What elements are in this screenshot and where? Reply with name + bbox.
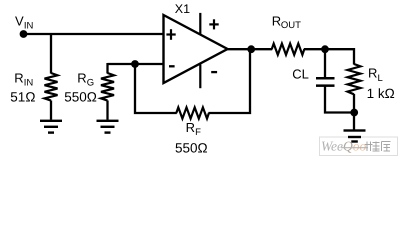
watermark text WeeQoo xyxy=(321,139,367,154)
wire feedback bottom right and up to output xyxy=(208,49,250,113)
resistor RF xyxy=(176,107,209,118)
resistor RL xyxy=(348,64,361,94)
wire RG drop xyxy=(106,63,108,74)
node load dot xyxy=(321,45,329,53)
node feedback tap xyxy=(131,60,139,68)
svg-text:R: R xyxy=(272,14,281,29)
op-amp noninverting plus sign xyxy=(166,29,175,40)
svg-text:L: L xyxy=(378,73,383,84)
svg-text:X1: X1 xyxy=(175,2,190,16)
svg-text:WeeQoo: WeeQoo xyxy=(321,139,367,154)
label RG xyxy=(77,70,94,88)
op-amp inverting minus sign xyxy=(169,65,175,67)
label RL xyxy=(368,66,383,84)
wire feedback left and bottom xyxy=(135,63,177,113)
label RIN xyxy=(14,70,33,88)
label plus supply xyxy=(209,19,218,29)
ground RG xyxy=(97,120,119,134)
wire VIN to op-amp noninverting input xyxy=(24,33,164,35)
label CL xyxy=(292,66,309,81)
svg-text:OUT: OUT xyxy=(281,20,301,31)
value 550ohm RG xyxy=(64,90,97,105)
svg-text:V: V xyxy=(15,14,24,29)
value 550ohm RF xyxy=(175,140,208,155)
wire CL bottom xyxy=(325,86,354,112)
svg-text:IN: IN xyxy=(24,78,34,89)
svg-text:R: R xyxy=(14,70,23,85)
svg-text:51Ω: 51Ω xyxy=(10,90,35,105)
wire CL drop xyxy=(324,49,326,77)
svg-text:IN: IN xyxy=(24,20,34,31)
wire op-amp output xyxy=(228,48,273,50)
svg-text:R: R xyxy=(368,66,377,81)
op-amp negative supply pin xyxy=(199,65,201,89)
op-amp X1 body xyxy=(164,15,228,83)
wire ROUT to load node and corner to RL xyxy=(304,49,354,64)
resistor RG xyxy=(101,73,114,101)
label minus supply xyxy=(211,71,217,73)
svg-text:1 kΩ: 1 kΩ xyxy=(367,86,395,101)
svg-text:550Ω: 550Ω xyxy=(175,140,208,155)
node output dot xyxy=(247,45,255,53)
svg-text:G: G xyxy=(87,78,94,89)
ground RL xyxy=(344,129,366,142)
label X1 xyxy=(175,2,190,16)
capacitor CL xyxy=(316,77,335,87)
node ground junction dot xyxy=(350,109,358,117)
watermark strikethrough swoosh xyxy=(341,147,368,149)
svg-text:CL: CL xyxy=(292,66,309,81)
resistor RIN xyxy=(45,73,58,101)
value 51ohm xyxy=(10,90,35,105)
label ROUT xyxy=(272,14,301,31)
svg-text:R: R xyxy=(186,120,195,135)
watermark CJK glyph ku xyxy=(382,142,391,152)
wire RIN drop xyxy=(50,34,52,74)
op-amp positive supply pin xyxy=(199,13,201,35)
label VIN xyxy=(15,14,34,32)
watermark CJK glyph wei xyxy=(365,142,380,152)
svg-text:550Ω: 550Ω xyxy=(64,90,97,105)
node VIN input dot xyxy=(20,30,28,38)
svg-text:R: R xyxy=(77,70,86,85)
wire RG to ground xyxy=(106,101,108,120)
label RF xyxy=(186,120,202,138)
ground RIN xyxy=(40,120,62,134)
svg-text:F: F xyxy=(195,127,201,138)
wire RIN to ground xyxy=(50,101,52,120)
resistor ROUT xyxy=(272,44,305,55)
value 1 kohm xyxy=(367,86,395,101)
wire inverting input xyxy=(108,63,164,65)
watermark box xyxy=(320,137,398,156)
wire RL to ground junction xyxy=(353,94,355,130)
